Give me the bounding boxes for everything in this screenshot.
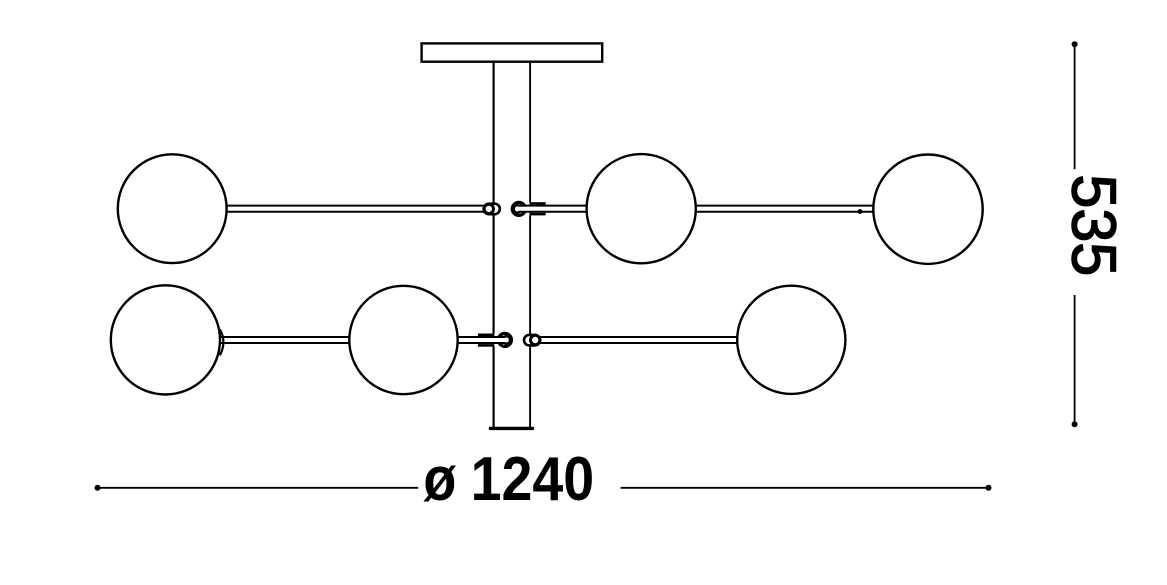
svg-text:1240: 1240 bbox=[471, 445, 595, 513]
svg-text:ø: ø bbox=[423, 444, 456, 513]
svg-text:535: 535 bbox=[1059, 174, 1129, 276]
